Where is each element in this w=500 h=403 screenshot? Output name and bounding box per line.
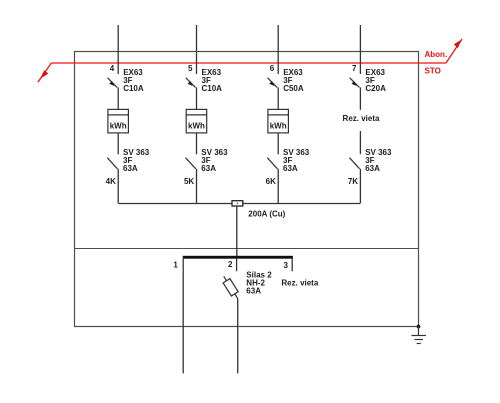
svg-text:Rez. vieta: Rez. vieta <box>343 114 380 123</box>
svg-text:2: 2 <box>228 260 233 269</box>
svg-text:C50A: C50A <box>283 84 304 93</box>
svg-text:63A: 63A <box>123 164 138 173</box>
wire tap 3 stub <box>291 259 293 272</box>
switch S4 blade <box>107 158 117 169</box>
svg-text:5K: 5K <box>184 177 194 186</box>
wire branch4 breaker to meter <box>117 87 119 109</box>
svg-text:63A: 63A <box>365 164 380 173</box>
svg-text:4K: 4K <box>106 177 116 186</box>
ground electrode symbol <box>411 327 426 344</box>
switch S5 blade <box>186 158 196 169</box>
kWh meter P4 <box>108 109 128 132</box>
svg-text:7K: 7K <box>348 177 358 186</box>
wire branch5 meter to switch <box>196 133 198 154</box>
svg-text:6K: 6K <box>266 177 276 186</box>
switch S7 blade <box>349 158 359 169</box>
svg-text:63A: 63A <box>201 164 216 173</box>
lower distribution bar (thick) <box>183 256 293 259</box>
wire branch6 meter to switch <box>277 133 279 154</box>
svg-text:kWh: kWh <box>270 121 287 130</box>
svg-text:200A (Cu): 200A (Cu) <box>248 210 285 219</box>
wire branch6 breaker to meter <box>277 87 279 109</box>
breaker Q5 EX63 blade <box>186 78 196 88</box>
switch S6 blade <box>267 158 277 169</box>
svg-text:STO: STO <box>425 67 441 76</box>
wire branch5 breaker to meter <box>196 87 198 109</box>
svg-text:Abon.: Abon. <box>425 50 448 59</box>
wire branch7 switch to busbar <box>359 169 361 203</box>
wire branch5 switch to busbar <box>196 169 198 203</box>
svg-text:63A: 63A <box>283 164 298 173</box>
svg-text:6: 6 <box>270 64 275 73</box>
breaker Q7 EX63 blade <box>350 78 360 88</box>
enclosure frame <box>75 52 419 327</box>
wire branch4 meter to switch <box>117 133 119 154</box>
svg-text:4: 4 <box>110 64 115 73</box>
red arrowhead right <box>454 40 462 49</box>
svg-text:kWh: kWh <box>188 121 205 130</box>
svg-text:7: 7 <box>352 64 357 73</box>
red incoming feeder line (Abon./STO) <box>38 39 462 82</box>
fuse F1 Silas 2 NH-2 (tilted fuse-disconnector) <box>223 276 238 298</box>
breaker Q7 arrowhead <box>352 81 357 86</box>
wire tap 1 down <box>182 259 184 374</box>
svg-text:kWh: kWh <box>110 121 127 130</box>
svg-text:5: 5 <box>188 64 193 73</box>
wire tap 2 stub <box>236 259 238 272</box>
kWh meter P6 <box>268 109 289 132</box>
wire branch7 reserve gap to switch <box>359 131 361 154</box>
wire branch6 switch to busbar <box>277 169 279 203</box>
kWh meter P5 <box>186 109 207 132</box>
wire feeder drop to lower bar <box>236 206 238 257</box>
breaker Q6 EX63 blade <box>268 78 278 88</box>
svg-text:C10A: C10A <box>123 84 144 93</box>
svg-text:63A: 63A <box>246 287 261 296</box>
svg-text:Rez. vieta: Rez. vieta <box>281 278 318 287</box>
busbar terminal connector box <box>232 201 243 206</box>
wire branch5 top <box>196 25 198 74</box>
svg-text:C20A: C20A <box>365 84 386 93</box>
wire branch4 switch to busbar <box>117 169 119 203</box>
wire branch7 below breaker <box>359 87 361 109</box>
wire branch7 top <box>359 25 361 74</box>
wire branch6 top <box>277 25 279 74</box>
svg-text:3: 3 <box>284 261 289 270</box>
panel divider line <box>74 248 419 250</box>
breaker Q4 arrowhead <box>109 81 114 86</box>
wire fuse output down <box>237 298 239 373</box>
breaker Q5 arrowhead <box>188 81 193 86</box>
svg-text:1: 1 <box>173 261 178 270</box>
red arrowhead left <box>40 70 48 78</box>
busbar 200A <box>118 203 360 205</box>
breaker Q4 EX63 blade <box>108 78 118 88</box>
wire branch4 top <box>117 25 119 74</box>
breaker Q6 arrowhead <box>269 81 274 86</box>
svg-text:C10A: C10A <box>202 84 223 93</box>
junction dot PE corner <box>417 325 421 329</box>
